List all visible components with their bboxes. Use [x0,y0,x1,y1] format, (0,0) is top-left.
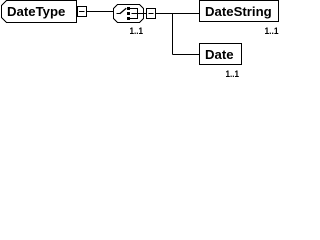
element box DateString [200,1,279,22]
svg-text:1..1: 1..1 [226,69,240,80]
choice icon: top contact line [130,8,138,10]
svg-text:DateString: DateString [205,4,272,19]
choice icon: contact squares [127,7,130,10]
branch wire to Date [173,54,200,56]
choice icon: switch arm [120,8,127,14]
wire to DateString [156,13,200,15]
svg-text:1..1: 1..1 [130,26,144,37]
expand box (minus) after DateType [78,7,87,17]
element box Date [200,44,242,65]
choice icon: middle/output wire [132,13,144,15]
choice icon: bottom contact line [130,18,138,20]
expand box (minus) after choice [147,9,156,19]
complexType box DateType [2,1,77,23]
trunk wire down [172,14,174,55]
choice icon: input stub [117,13,121,15]
wire choice to expand box [144,13,147,15]
choice compositor octagon [114,5,144,23]
svg-text:1..1: 1..1 [265,26,280,37]
svg-text:DateType: DateType [7,4,65,19]
svg-text:Date: Date [205,47,234,62]
choice icon: vertical bus [137,8,139,19]
wire from expand box to choice [87,11,114,13]
